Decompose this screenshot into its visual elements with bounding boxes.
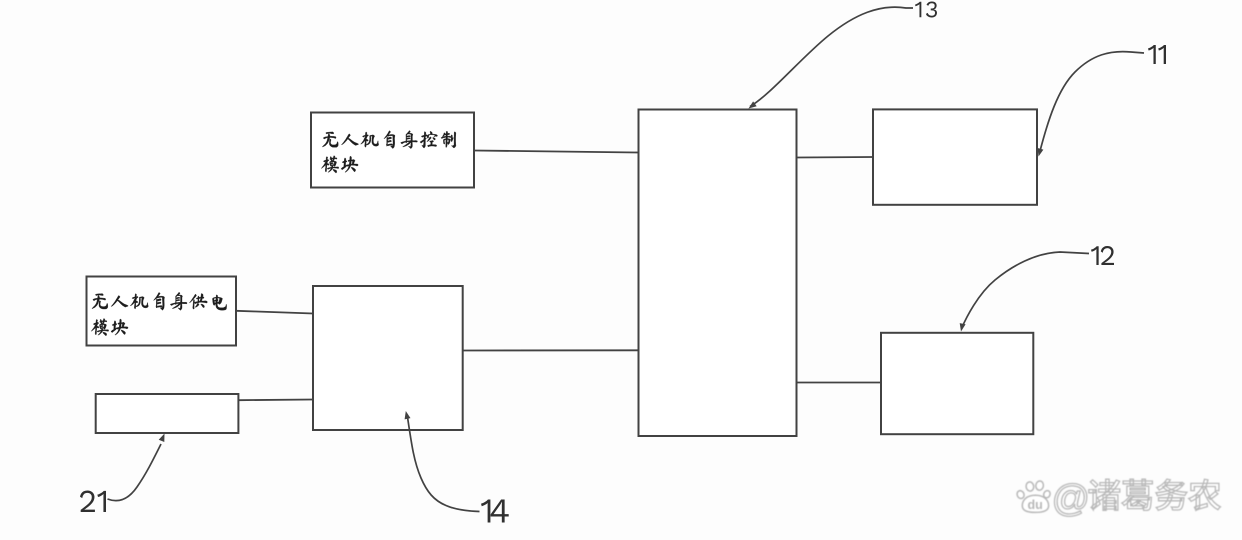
svg-text:du: du xyxy=(1028,498,1043,512)
svg-text:@: @ xyxy=(1052,478,1091,520)
